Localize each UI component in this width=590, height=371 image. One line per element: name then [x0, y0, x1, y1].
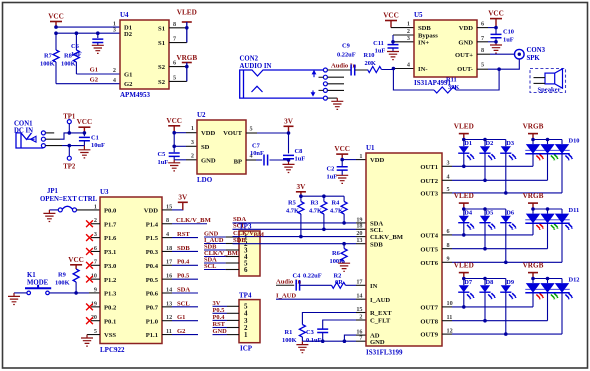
wires RGB D10 cathodes to OUT: [533, 154, 562, 193]
svg-text:3V: 3V: [178, 194, 188, 202]
resistor R6: [330, 244, 348, 265]
svg-text:D2: D2: [124, 31, 133, 38]
resistor R10: [364, 52, 382, 73]
svg-text:P1.7: P1.7: [104, 221, 117, 228]
svg-text:100K: 100K: [61, 61, 76, 68]
wires RGB D11 cathodes to OUT: [533, 223, 562, 262]
svg-text:Audio In: Audio In: [276, 278, 301, 285]
wires OUT row 2: [442, 235, 562, 262]
resistor R4: [330, 196, 347, 225]
svg-text:8: 8: [166, 217, 169, 224]
svg-text:0.22uF: 0.22uF: [337, 52, 356, 59]
svg-text:OUT1: OUT1: [420, 164, 438, 171]
svg-text:P0.5: P0.5: [177, 273, 190, 280]
wire U1 C_FLT to C3: [323, 320, 366, 329]
svg-text:VLED: VLED: [454, 192, 474, 200]
svg-text:8: 8: [481, 47, 484, 54]
wire U2 VOUT to 3V: [246, 132, 289, 134]
wire U5 Bypass/IN+ to C11: [391, 35, 414, 44]
svg-text:SCL: SCL: [177, 300, 190, 307]
wire CON2 tip to C9: [327, 69, 350, 71]
net label G2 (U3 P1.1): [162, 328, 198, 335]
svg-text:G1: G1: [124, 72, 132, 79]
svg-text:1: 1: [94, 203, 97, 210]
power 3V (U3 VDD): [162, 194, 188, 210]
svg-text:OUT4: OUT4: [420, 233, 438, 240]
svg-text:2: 2: [94, 217, 97, 224]
svg-text:10: 10: [447, 300, 453, 307]
svg-text:D8: D8: [486, 279, 494, 286]
svg-text:CON3: CON3: [527, 47, 546, 54]
wire U4 S1 pins to VLED: [169, 22, 189, 43]
svg-text:1uF: 1uF: [503, 37, 514, 44]
ground (CON2): [331, 98, 343, 109]
svg-text:R4: R4: [332, 200, 341, 207]
svg-text:4.7K: 4.7K: [286, 208, 299, 215]
svg-text:1: 1: [191, 125, 194, 132]
svg-text:P0.2: P0.2: [104, 304, 117, 311]
svg-text:S2: S2: [158, 79, 166, 86]
svg-text:P3.1: P3.1: [104, 249, 116, 256]
net label SDA (U3 P0.6): [162, 286, 198, 293]
LED D7: [458, 279, 475, 300]
svg-text:4.7K: 4.7K: [330, 208, 343, 215]
svg-text:3: 3: [94, 231, 97, 238]
svg-text:VCC: VCC: [48, 13, 64, 21]
svg-text:1uF: 1uF: [71, 51, 82, 58]
connector CON3 SPK: [515, 47, 546, 62]
wire VLED rail row 2: [462, 207, 506, 211]
LED D8: [479, 279, 496, 300]
push-button K1 MODE: [25, 272, 51, 295]
svg-text:VRGB: VRGB: [176, 54, 197, 62]
svg-text:P0.7: P0.7: [146, 304, 159, 311]
svg-text:R9: R9: [58, 272, 66, 279]
ground (U5/C10): [490, 42, 502, 53]
svg-text:C5: C5: [158, 151, 166, 158]
svg-text:8: 8: [173, 21, 176, 28]
wire JP1 to U3 P0.0: [77, 209, 101, 211]
svg-text:100K: 100K: [282, 337, 297, 344]
power VCC (U2): [166, 117, 182, 133]
svg-text:2: 2: [113, 67, 116, 74]
power VCC (U5 VDD): [488, 10, 504, 28]
power VLED (U4 S1): [177, 9, 197, 23]
wire VCC to U1 VDD: [340, 158, 366, 162]
svg-text:1uF: 1uF: [158, 159, 169, 166]
svg-text:OUT7: OUT7: [420, 305, 438, 312]
svg-text:100K: 100K: [40, 61, 55, 68]
svg-text:C8: C8: [295, 148, 303, 155]
svg-text:SDB: SDB: [177, 245, 190, 252]
svg-text:7: 7: [173, 36, 176, 43]
svg-text:1: 1: [359, 153, 362, 160]
svg-text:5: 5: [94, 328, 97, 335]
connector CON1 DC IN: [14, 120, 43, 148]
wire CON2 switch stubs: [319, 77, 345, 90]
svg-text:VRGB: VRGB: [523, 192, 544, 200]
svg-text:VCC: VCC: [334, 145, 350, 153]
svg-text:CLK/V: CLK/V: [233, 230, 254, 237]
svg-text:4: 4: [407, 62, 410, 69]
svg-text:IN+: IN+: [418, 39, 429, 46]
svg-text:4.7K: 4.7K: [309, 208, 322, 215]
svg-text:1uF: 1uF: [375, 48, 386, 55]
wire U3 VSS to ground: [87, 334, 100, 336]
svg-text:CON1: CON1: [14, 120, 33, 127]
wire CON1 center pin to VCC rail: [45, 133, 84, 139]
power 3V (pull-ups): [296, 183, 306, 196]
svg-text:Speaker: Speaker: [537, 87, 560, 94]
svg-text:R_EXT: R_EXT: [370, 310, 392, 317]
capacitor C6: [71, 33, 103, 58]
svg-text:BM: BM: [254, 231, 265, 238]
wire CON1 tip stub: [45, 132, 54, 134]
svg-text:13: 13: [166, 300, 172, 307]
svg-text:C6: C6: [71, 43, 80, 50]
svg-text:VCC: VCC: [77, 118, 93, 126]
svg-text:C10: C10: [503, 29, 514, 36]
wire VCC to U4 D1: [56, 26, 120, 28]
svg-text:G2: G2: [177, 328, 186, 335]
svg-text:P0.3: P0.3: [146, 249, 159, 256]
resistor R2: [332, 272, 346, 288]
wire VCC to U2 VDD: [174, 132, 197, 134]
LED D9: [500, 279, 517, 300]
svg-text:9: 9: [94, 286, 97, 293]
svg-text:1: 1: [407, 21, 410, 28]
svg-text:P1.5: P1.5: [146, 235, 159, 242]
svg-text:39K: 39K: [448, 84, 459, 91]
wire LED D6 cathode to OUT: [504, 223, 508, 264]
svg-text:3V: 3V: [297, 183, 307, 191]
ground (C11): [387, 52, 399, 60]
svg-text:G2: G2: [90, 77, 99, 84]
connector CON2 AUDIO IN: [240, 56, 324, 98]
wire feedback to R11: [456, 69, 499, 90]
led driver U1 body (IS31FL3199): [366, 144, 442, 357]
svg-text:SDA: SDA: [177, 286, 190, 293]
svg-text:OUT5: OUT5: [420, 246, 438, 253]
svg-text:VCC: VCC: [488, 10, 504, 18]
capacitor C11: [373, 40, 398, 55]
power VLED (row 2): [454, 192, 474, 209]
wire VRGB rail row 3: [531, 277, 562, 281]
svg-text:Audio In: Audio In: [331, 62, 356, 69]
svg-text:11: 11: [447, 314, 453, 321]
wire U1 GND rail: [302, 339, 366, 343]
power 3V (U2 output): [284, 117, 294, 133]
CON1 terminal circles: [41, 131, 45, 148]
op-amp U4 body (APM4953): [120, 11, 169, 99]
svg-text:OUT2: OUT2: [420, 178, 438, 185]
wires RGB D12 cathodes to OUT: [533, 293, 562, 334]
svg-text:D6: D6: [506, 210, 515, 217]
svg-text:VLED: VLED: [454, 261, 474, 269]
ground (JP1): [43, 210, 55, 222]
svg-text:5: 5: [481, 62, 484, 69]
wire R8 to G1: [76, 73, 120, 75]
svg-text:R6: R6: [332, 250, 341, 257]
svg-text:VOUT: VOUT: [223, 130, 243, 137]
wire K1 to U3 P1.3: [49, 291, 100, 295]
resistor R11: [434, 77, 459, 94]
svg-text:D10: D10: [569, 137, 580, 144]
svg-text:D7: D7: [464, 279, 473, 286]
header TP3: [239, 223, 260, 276]
svg-text:CON2: CON2: [240, 56, 259, 63]
svg-text:SD: SD: [201, 144, 210, 151]
svg-text:VDD: VDD: [201, 130, 216, 137]
net label P0.5 (U3 P0.5): [162, 273, 198, 280]
speaker (mechanical): [530, 69, 566, 94]
svg-text:0.22uF: 0.22uF: [303, 272, 322, 279]
svg-text:7: 7: [94, 259, 97, 266]
svg-text:6: 6: [94, 245, 97, 252]
pin numbers U5 left: [407, 21, 410, 69]
svg-text:CLKV_BM: CLKV_BM: [370, 234, 404, 241]
svg-text:0.1uF: 0.1uF: [306, 337, 322, 344]
wire LED D8 cathode to OUT: [483, 292, 487, 322]
resistor R5: [286, 196, 304, 238]
capacitor C1: [79, 133, 105, 149]
wire Audio In to C4: [276, 284, 294, 286]
ground (R1/C3/U1): [296, 341, 308, 353]
svg-text:R11: R11: [446, 77, 457, 84]
ground (C6): [92, 45, 104, 53]
svg-text:20K: 20K: [365, 60, 376, 67]
capacitor C8: [283, 133, 305, 163]
svg-text:OPEN=EXT CTRL: OPEN=EXT CTRL: [40, 196, 98, 203]
svg-text:D2: D2: [486, 140, 494, 147]
svg-text:7: 7: [481, 35, 484, 42]
svg-text:10nF: 10nF: [250, 150, 264, 157]
svg-text:P1.1: P1.1: [146, 332, 158, 339]
net label RST (U3 P1.5): [162, 231, 198, 238]
wire 3V rail to R5 R3 R4: [299, 194, 344, 198]
svg-text:VDD: VDD: [144, 208, 159, 215]
svg-text:2: 2: [359, 313, 362, 320]
resistor R7: [40, 50, 59, 84]
svg-text:I_AUD: I_AUD: [276, 292, 296, 299]
svg-text:D4: D4: [464, 210, 473, 217]
svg-text:12: 12: [447, 327, 453, 334]
capacitor C10: [491, 28, 515, 44]
svg-text:17: 17: [356, 279, 362, 286]
svg-text:IN-: IN-: [418, 66, 428, 73]
svg-text:OUT-: OUT-: [457, 66, 473, 73]
power VCC (R9): [68, 256, 84, 269]
svg-text:17: 17: [166, 259, 172, 266]
svg-text:P1.3: P1.3: [104, 291, 117, 298]
wire U5 GND pin to ground: [477, 41, 496, 43]
svg-text:5: 5: [447, 186, 450, 193]
svg-text:P1.2: P1.2: [104, 277, 117, 284]
svg-text:VRGB: VRGB: [523, 122, 544, 130]
wire CON2 sleeve to ground: [327, 97, 337, 99]
svg-text:RST: RST: [213, 321, 226, 328]
ground (R6): [338, 263, 350, 271]
power VCC (U1): [334, 145, 350, 160]
svg-text:12: 12: [166, 314, 172, 321]
svg-text:IN: IN: [370, 283, 378, 290]
net label SCL (U3 P0.7): [162, 300, 198, 307]
LED D6: [500, 209, 517, 230]
pin numbers U3 left: [91, 203, 97, 335]
svg-text:VCC: VCC: [383, 12, 399, 20]
wire net SCL to U1: [233, 223, 367, 230]
RGB LED D10: [525, 137, 579, 160]
wire C9 to R10: [355, 69, 368, 71]
capacitor C4: [293, 272, 322, 290]
svg-text:TP4: TP4: [239, 291, 252, 299]
svg-text:1uF: 1uF: [295, 156, 306, 163]
svg-text:16: 16: [166, 273, 172, 280]
svg-text:D5: D5: [486, 210, 494, 217]
svg-text:P0.1: P0.1: [104, 318, 116, 325]
ground (K1): [8, 293, 20, 305]
jumper JP1 OPEN=EXT CTRL: [40, 188, 98, 212]
junction dots CON1 rails: [68, 131, 87, 147]
svg-text:4: 4: [113, 77, 116, 84]
svg-text:G2: G2: [124, 81, 133, 88]
wire VLED rail row 3: [462, 277, 506, 281]
svg-text:VLED: VLED: [454, 122, 474, 130]
wire VRGB rail row 2: [531, 207, 562, 211]
svg-text:OUT3: OUT3: [420, 191, 438, 198]
wire U2 GND pin: [174, 159, 197, 161]
svg-text:U3: U3: [100, 188, 109, 196]
svg-text:1: 1: [244, 331, 248, 339]
net label P0.4 (U3 P0.4): [162, 259, 198, 266]
net label CLK/V_BM (U3 P1.4): [162, 217, 212, 224]
power VLED (row 3): [454, 261, 474, 278]
svg-text:18: 18: [356, 223, 362, 230]
svg-text:100K: 100K: [55, 280, 70, 287]
wire LED D2 cathode to OUT: [483, 153, 487, 182]
svg-text:VLED: VLED: [177, 9, 197, 17]
svg-text:CLK/V_BM: CLK/V_BM: [176, 217, 212, 224]
wires OUT row 1: [442, 166, 562, 193]
svg-text:P0.5: P0.5: [213, 307, 225, 314]
no-connect X marks U3: [86, 220, 100, 324]
wire R7 to G2: [56, 83, 120, 85]
wire VCC to U4 D2: [55, 33, 57, 50]
pin numbers U3 right: [166, 203, 172, 335]
wires/net labels TP3 (GND I_AUD SDB CLK/V_BM SDA SCL): [204, 231, 239, 271]
svg-text:R10: R10: [364, 52, 375, 59]
wire VRGB rail row 1: [531, 138, 562, 142]
svg-text:VDD: VDD: [459, 25, 474, 32]
ground (U3 VSS): [81, 335, 93, 347]
svg-text:U5: U5: [414, 11, 423, 19]
wire LED D3 cathode to OUT: [504, 153, 508, 195]
svg-text:P0.6: P0.6: [146, 291, 159, 298]
power VCC (U5 input bias): [383, 12, 399, 28]
svg-text:9: 9: [447, 256, 450, 263]
wire net I_AUD to U1: [276, 292, 366, 299]
svg-text:SDB: SDB: [418, 25, 431, 32]
power VCC (U4 pull-ups): [48, 13, 64, 28]
junction dots U4 inputs: [54, 25, 99, 35]
svg-text:VDD: VDD: [370, 157, 385, 164]
LED D4: [458, 209, 475, 230]
svg-text:APM4953: APM4953: [120, 91, 150, 99]
svg-text:R7: R7: [44, 53, 53, 60]
wire CON1 sleeve to ground rail: [45, 145, 84, 147]
svg-text:LPC922: LPC922: [100, 346, 125, 354]
LED D1: [458, 140, 475, 161]
power VCC (CON1): [77, 118, 93, 133]
power VRGB (U4 S2): [176, 54, 197, 63]
svg-text:R3: R3: [311, 200, 319, 207]
svg-text:R1: R1: [285, 329, 293, 336]
capacitor C3: [306, 329, 328, 344]
svg-text:P1.4: P1.4: [146, 221, 159, 228]
wire LED D7 cathode to OUT: [462, 292, 466, 309]
svg-text:OUT8: OUT8: [420, 318, 438, 325]
wire LED D1 cathode to OUT: [462, 153, 466, 168]
capacitor C7: [246, 142, 289, 165]
LED D5: [479, 209, 496, 230]
svg-text:3: 3: [191, 139, 194, 146]
svg-text:10uF: 10uF: [91, 142, 105, 149]
svg-text:1uF: 1uF: [327, 174, 338, 181]
svg-text:G1: G1: [90, 67, 98, 74]
svg-text:6: 6: [244, 266, 248, 274]
svg-text:RST: RST: [177, 231, 190, 238]
LED D2: [479, 140, 496, 161]
svg-text:GND: GND: [213, 328, 228, 335]
svg-text:6: 6: [447, 228, 450, 235]
wire U5 OUT+ to CON3: [477, 53, 515, 55]
wire R10 to U5 IN-: [382, 67, 415, 71]
capacitor C2: [327, 160, 348, 181]
svg-text:S2: S2: [158, 64, 166, 71]
svg-text:BP: BP: [234, 159, 242, 166]
wire LED D9 cathode to OUT: [504, 292, 508, 336]
svg-text:P0.4: P0.4: [213, 314, 226, 321]
svg-text:P0.4: P0.4: [146, 263, 159, 270]
ground (CON1/C1): [78, 146, 90, 158]
svg-text:D12: D12: [569, 276, 580, 283]
svg-text:G1: G1: [177, 314, 185, 321]
svg-text:C3: C3: [306, 329, 314, 336]
svg-text:5: 5: [173, 75, 176, 82]
junction dots U5 VDD rail: [494, 26, 498, 44]
CON2 terminal circles: [323, 68, 327, 100]
pin numbers U5 right: [481, 21, 484, 69]
net label G1 (U3 P1.0): [162, 314, 198, 321]
svg-text:8: 8: [447, 242, 450, 249]
svg-text:VRGB: VRGB: [523, 261, 544, 269]
svg-text:C2: C2: [327, 166, 335, 173]
power VLED (row 1): [454, 122, 474, 139]
power VRGB (row 3): [523, 261, 544, 278]
svg-text:D9: D9: [506, 279, 514, 286]
svg-text:3V: 3V: [284, 117, 294, 125]
svg-text:D1: D1: [464, 140, 472, 147]
svg-text:SCL: SCL: [204, 263, 216, 270]
test point TP1: [63, 114, 76, 133]
svg-text:4: 4: [166, 231, 169, 238]
test point TP2: [63, 146, 76, 171]
svg-text:U4: U4: [120, 11, 129, 19]
svg-text:SCL: SCL: [233, 223, 246, 230]
svg-text:P1.6: P1.6: [104, 235, 117, 242]
svg-text:14: 14: [166, 286, 172, 293]
svg-text:D11: D11: [569, 207, 580, 214]
